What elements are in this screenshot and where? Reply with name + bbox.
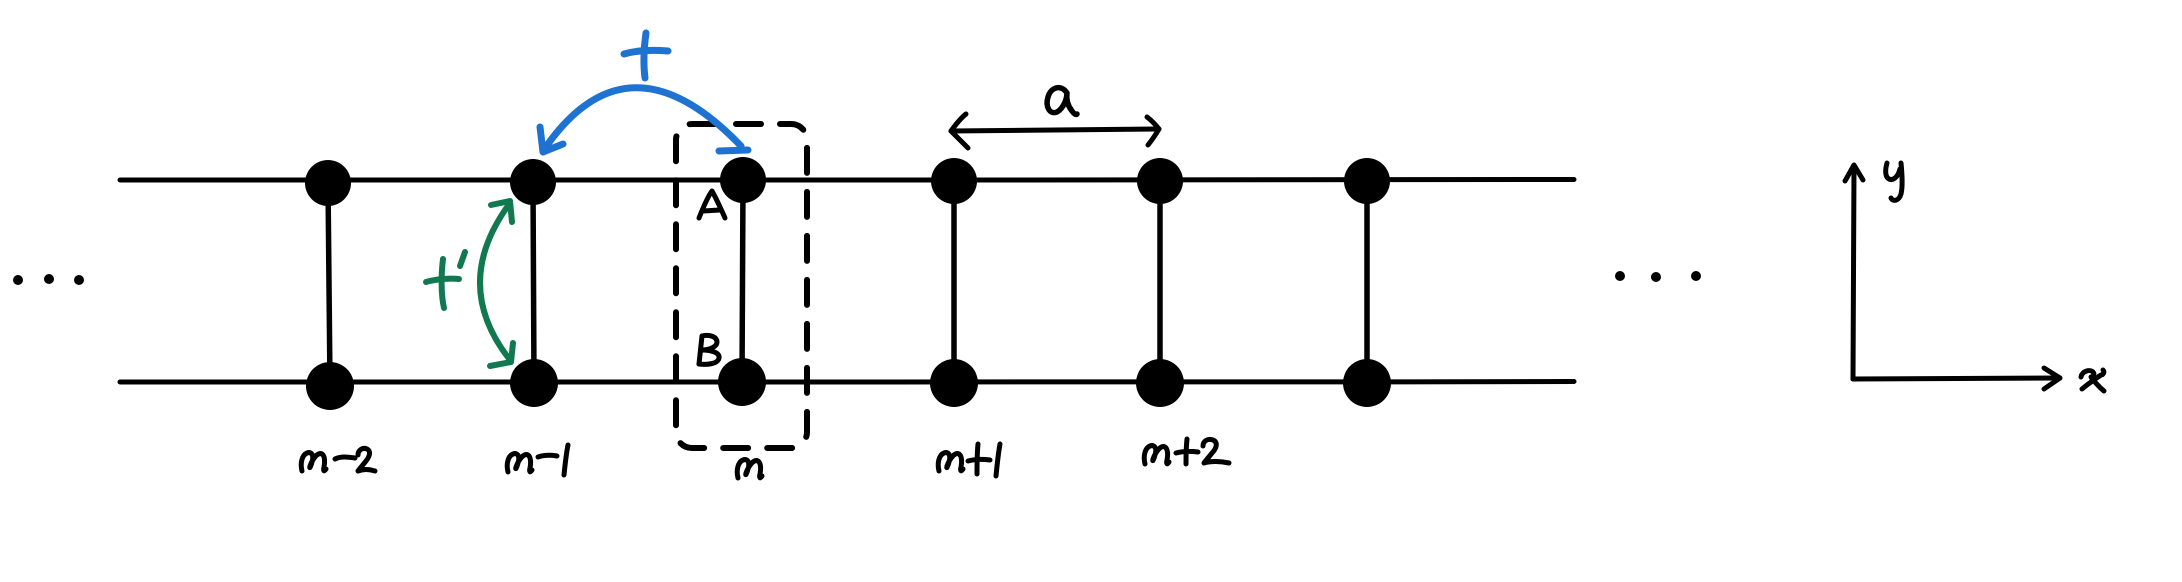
axis y bbox=[1853, 166, 1854, 379]
arrowhead t right bbox=[719, 150, 748, 151]
node site A(n+1) bbox=[931, 158, 977, 204]
arrowhead a left bbox=[951, 114, 968, 148]
label A bbox=[699, 191, 725, 218]
node site B(n+1) bbox=[930, 359, 978, 407]
node site B(n+2) bbox=[1136, 359, 1184, 407]
node site A(n+3) bbox=[1344, 158, 1390, 204]
label n+2 bbox=[1144, 439, 1229, 464]
arrowhead axis x bbox=[2044, 368, 2060, 389]
label n-1 bbox=[507, 445, 568, 475]
wire rung n+3 bbox=[1364, 181, 1370, 382]
node site B(n-1) bbox=[510, 359, 558, 407]
label a bbox=[1047, 88, 1077, 115]
arrowhead t' top bbox=[491, 201, 512, 222]
label x bbox=[2081, 370, 2104, 391]
wire rung n bbox=[742, 181, 743, 381]
wire bottom rail bbox=[120, 379, 1574, 385]
node site A(n) bbox=[720, 157, 766, 203]
left ellipsis bbox=[13, 275, 23, 285]
hopping arrow t' (green arc) bbox=[480, 203, 510, 360]
arrowhead axis y bbox=[1845, 165, 1863, 181]
label B bbox=[699, 335, 719, 364]
node site A(n-2) bbox=[305, 160, 351, 206]
wire rung n-1 bbox=[533, 183, 534, 381]
wire rung n+1 bbox=[951, 181, 957, 382]
arrowhead t' bottom bbox=[490, 343, 513, 366]
node site B(n-2) bbox=[306, 362, 354, 410]
node site B(n+3) bbox=[1343, 359, 1391, 407]
label n bbox=[737, 460, 762, 478]
label n-2 bbox=[301, 448, 375, 471]
arrowhead t left bbox=[540, 127, 563, 152]
node site A(n-1) bbox=[510, 159, 556, 205]
label y bbox=[1886, 163, 1902, 200]
node site B(n) bbox=[718, 358, 766, 406]
label t (blue) bbox=[624, 33, 668, 78]
wire top rail bbox=[120, 177, 1574, 183]
wire rung n-2 bbox=[328, 183, 330, 385]
node site A(n+2) bbox=[1137, 158, 1183, 204]
right ellipsis bbox=[1615, 271, 1625, 281]
axis x bbox=[1853, 378, 2059, 379]
label t' (green) bbox=[426, 252, 465, 308]
dimension arrow a bbox=[951, 129, 1159, 131]
wire rung n+2 bbox=[1157, 181, 1163, 382]
arrowhead a right bbox=[1147, 117, 1159, 145]
hopping arrow t (blue arc) bbox=[543, 88, 741, 151]
label n+1 bbox=[938, 444, 1000, 476]
unit cell dashed box bbox=[676, 124, 807, 448]
